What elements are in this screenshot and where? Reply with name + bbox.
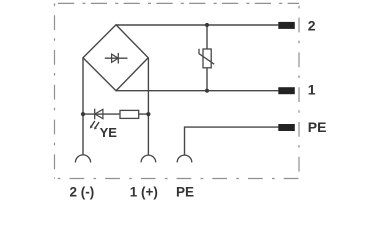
svg-text:PE: PE bbox=[176, 184, 194, 199]
wire: output 2 (top rail from bridge + terminal 2) bbox=[116, 24, 278, 26]
wire: right AC branch (vertex to socket 1) bbox=[147, 58, 149, 155]
svg-text:1: 1 bbox=[308, 82, 316, 98]
svg-text:PE: PE bbox=[308, 119, 327, 135]
terminal pad 2 bbox=[278, 22, 295, 29]
svg-text:YE: YE bbox=[100, 125, 118, 140]
LED light arrow 1 bbox=[90, 121, 95, 129]
socket pin PE bbox=[177, 155, 192, 162]
socket pin 1 (+) bbox=[141, 155, 156, 162]
wire: output 1 (bottom rail from bridge to terminal 1) bbox=[116, 90, 278, 92]
LED YE bbox=[95, 109, 103, 120]
junction: LED row right bbox=[146, 112, 150, 116]
wire: PE lead (socket PE up and right to terminal PE) bbox=[185, 127, 279, 155]
device outline (dash-dot enclosure) bbox=[55, 3, 300, 178]
bridge rectifier (diamond) bbox=[83, 25, 148, 91]
LED light arrow 2 bbox=[94, 122, 99, 130]
wire: LED/resistor row bbox=[83, 113, 148, 115]
wire: varistor branch (top) bbox=[206, 25, 208, 49]
wire: varistor branch (bottom) bbox=[206, 68, 208, 91]
wire: left AC branch (vertex to socket 2) bbox=[82, 58, 84, 155]
junction: bottom rail / varistor bbox=[205, 89, 209, 93]
varistor bbox=[199, 49, 214, 68]
junction: top rail / varistor bbox=[205, 23, 209, 27]
terminal pad 1 bbox=[278, 87, 295, 94]
svg-text:2: 2 bbox=[308, 18, 316, 34]
svg-text:1 (+): 1 (+) bbox=[130, 184, 158, 199]
svg-text:2 (-): 2 (-) bbox=[70, 184, 95, 199]
socket pin 2 (-) bbox=[75, 155, 90, 163]
junction: LED row left bbox=[81, 112, 85, 116]
terminal pad PE bbox=[278, 124, 295, 131]
resistor bbox=[120, 110, 139, 118]
